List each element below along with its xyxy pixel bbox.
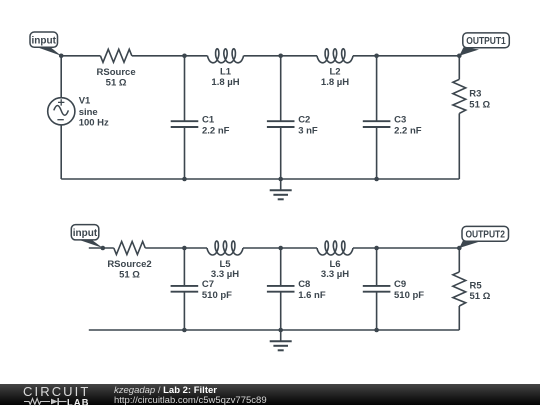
node input (top) bbox=[59, 54, 64, 59]
resistor R3 bbox=[453, 79, 466, 113]
capacitor C7 wire upper bbox=[183, 248, 185, 286]
node input (lower) bbox=[101, 246, 106, 251]
wire RSource2 to L5 bbox=[145, 247, 207, 249]
resistor R5 bbox=[453, 272, 466, 306]
svg-text:51 Ω: 51 Ω bbox=[470, 291, 491, 302]
svg-text:3.3 µH: 3.3 µH bbox=[211, 269, 239, 280]
label RSource value bbox=[97, 67, 136, 89]
label L6 value bbox=[321, 259, 349, 280]
svg-text:C8: C8 bbox=[298, 279, 310, 290]
svg-text:LAB: LAB bbox=[67, 398, 90, 407]
svg-text:C1: C1 bbox=[202, 115, 215, 126]
svg-text:1.8 µH: 1.8 µH bbox=[211, 77, 239, 88]
capacitor C1 wire lower bbox=[184, 127, 186, 179]
inductor L5 bbox=[207, 241, 243, 255]
label L5 value bbox=[211, 259, 239, 280]
svg-text:51 Ω: 51 Ω bbox=[469, 100, 490, 111]
svg-text:510 pF: 510 pF bbox=[394, 290, 424, 301]
label V1 value bbox=[79, 96, 109, 129]
capacitor C9 wire lower bbox=[376, 292, 378, 330]
node C2 top junction bbox=[278, 54, 283, 59]
resistor R5 wire lower bbox=[458, 306, 460, 330]
wire L1 to L2 bbox=[244, 55, 318, 57]
node C1 bottom junction bbox=[182, 177, 187, 182]
wire bottom rail top circuit bbox=[61, 178, 459, 180]
capacitor C9 bbox=[363, 286, 391, 292]
label C3 value bbox=[394, 115, 422, 137]
capacitor C2 bbox=[267, 121, 295, 127]
capacitor C1 wire upper bbox=[184, 56, 186, 121]
V1 minus mark bbox=[57, 119, 63, 121]
capacitor C1 bbox=[171, 121, 199, 127]
inductor L6 bbox=[317, 241, 353, 255]
svg-text:RSource: RSource bbox=[97, 67, 136, 78]
wire V1 bottom lead bbox=[60, 125, 62, 179]
capacitor C8 bbox=[267, 286, 295, 292]
node C9 bottom junction bbox=[374, 328, 379, 333]
wire L6 to OUTPUT2 node bbox=[353, 247, 459, 249]
capacitor C7 wire lower bbox=[183, 292, 185, 330]
node C1 top junction bbox=[182, 54, 187, 59]
svg-text:R3: R3 bbox=[469, 89, 481, 100]
svg-text:51 Ω: 51 Ω bbox=[119, 270, 140, 281]
svg-text:OUTPUT2: OUTPUT2 bbox=[465, 230, 505, 241]
node C7 bottom junction bbox=[182, 328, 187, 333]
label RSource2 value bbox=[107, 259, 151, 281]
svg-text:C3: C3 bbox=[394, 115, 406, 126]
capacitor C2 wire lower bbox=[280, 127, 282, 179]
flag OUTPUT1 bbox=[459, 33, 509, 56]
label L1 value bbox=[211, 67, 239, 88]
svg-text:2.2 nF: 2.2 nF bbox=[394, 126, 422, 137]
wire lower input stub bbox=[89, 247, 114, 249]
svg-text:2.2 nF: 2.2 nF bbox=[202, 126, 230, 137]
wire V1 top lead bbox=[60, 56, 62, 98]
capacitor C3 bbox=[363, 121, 391, 127]
label L2 value bbox=[321, 67, 349, 88]
svg-text:C7: C7 bbox=[202, 279, 214, 290]
resistor RSource bbox=[100, 49, 131, 62]
capacitor C8 wire upper bbox=[280, 248, 282, 286]
wire L5 to L6 bbox=[243, 247, 317, 249]
svg-text:input: input bbox=[31, 36, 56, 47]
wire L2 to OUTPUT1 node bbox=[353, 55, 459, 57]
svg-text:C2: C2 bbox=[298, 115, 310, 126]
svg-text:51 Ω: 51 Ω bbox=[106, 78, 127, 89]
inductor L1 bbox=[208, 49, 244, 63]
node ground junction top circuit bbox=[278, 177, 283, 182]
wire bottom rail lower circuit bbox=[89, 329, 460, 331]
resistor R3 wire lower bbox=[458, 113, 460, 179]
capacitor C7 bbox=[171, 286, 199, 292]
capacitor C8 wire lower bbox=[280, 292, 282, 330]
flag input (lower) bbox=[71, 225, 103, 248]
svg-text:input: input bbox=[73, 228, 98, 239]
resistor RSource2 bbox=[114, 242, 145, 255]
svg-text:RSource2: RSource2 bbox=[107, 259, 151, 270]
label C8 value bbox=[298, 279, 326, 301]
svg-text:C9: C9 bbox=[394, 279, 406, 290]
node ground junction lower circuit bbox=[278, 328, 283, 333]
label R3 value bbox=[469, 89, 490, 111]
node OUTPUT2 bbox=[457, 246, 462, 251]
svg-text:R5: R5 bbox=[470, 280, 483, 291]
wire RSource to L1 bbox=[132, 55, 208, 57]
label C1 value bbox=[202, 115, 230, 137]
flag input (top) bbox=[30, 32, 61, 56]
svg-text:1.8 µH: 1.8 µH bbox=[321, 77, 349, 88]
ground top circuit bbox=[270, 179, 292, 199]
svg-text:100 Hz: 100 Hz bbox=[79, 117, 109, 128]
svg-text:3 nF: 3 nF bbox=[298, 126, 318, 137]
svg-text:510 pF: 510 pF bbox=[202, 290, 232, 301]
svg-text:sine: sine bbox=[79, 107, 98, 118]
node C7 top junction bbox=[182, 246, 187, 251]
CircuitLab logo bbox=[23, 385, 93, 398]
label C7 value bbox=[202, 279, 232, 301]
svg-text:V1: V1 bbox=[79, 96, 91, 107]
inductor L2 bbox=[317, 49, 353, 63]
label C2 value bbox=[298, 115, 318, 137]
svg-text:3.3 µH: 3.3 µH bbox=[321, 269, 349, 280]
capacitor C9 wire upper bbox=[376, 248, 378, 286]
V1 plus mark bbox=[58, 99, 64, 105]
ground lower circuit bbox=[270, 330, 292, 350]
node C9 top junction bbox=[374, 246, 379, 251]
resistor R3 wire upper bbox=[458, 56, 460, 80]
node C3 bottom junction bbox=[374, 177, 379, 182]
flag OUTPUT2 bbox=[459, 226, 508, 248]
node C8 top junction bbox=[278, 246, 283, 251]
V1 sine bbox=[54, 106, 69, 116]
label C9 value bbox=[394, 279, 424, 301]
node C3 top junction bbox=[374, 54, 379, 59]
footer meta text bbox=[114, 386, 267, 406]
label R5 value bbox=[470, 280, 491, 302]
svg-text:1.6 nF: 1.6 nF bbox=[298, 290, 326, 301]
capacitor C3 wire lower bbox=[376, 127, 378, 179]
capacitor C2 wire upper bbox=[280, 56, 282, 121]
capacitor C3 wire upper bbox=[376, 56, 378, 121]
svg-text:OUTPUT1: OUTPUT1 bbox=[466, 36, 506, 47]
wire top rail left (input node to RSource) bbox=[61, 55, 100, 57]
node OUTPUT1 bbox=[457, 54, 462, 59]
source V1 circle bbox=[48, 98, 75, 125]
resistor R5 wire upper bbox=[458, 248, 460, 272]
footer bar bbox=[0, 384, 540, 405]
